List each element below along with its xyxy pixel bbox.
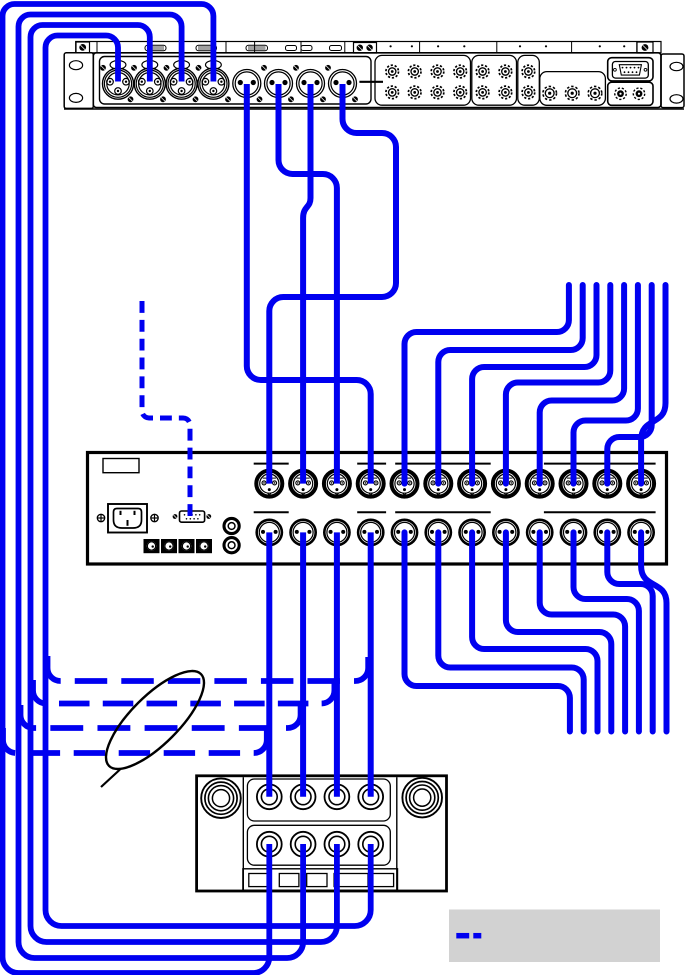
XLR female 10 (middle unit top row) xyxy=(561,471,587,497)
XLR female 11 (middle unit top row) xyxy=(594,471,620,497)
snake callout ellipse xyxy=(92,657,218,783)
DB9 connector box (top unit) xyxy=(608,58,653,81)
legend dashed sample xyxy=(456,933,481,939)
legend box xyxy=(449,910,660,963)
XLR male 11 (middle unit bottom row) xyxy=(595,520,620,545)
label plate xyxy=(103,459,139,473)
XLR female 7 (middle unit top row) xyxy=(459,471,485,497)
XLR male 12 (middle unit bottom row) xyxy=(629,520,654,545)
RCA jacks 2x2 group xyxy=(476,65,511,99)
XLR flange screws (male group) xyxy=(257,65,358,102)
wire ch 12 out to external 8 xyxy=(641,532,666,731)
wire M1: top unit XLR in 1 to middle unit ch 4 xyxy=(247,84,371,484)
callout leader line xyxy=(101,770,120,788)
XLR female 4 (middle unit top row) xyxy=(358,471,384,497)
XLR female 5 (middle unit top row) xyxy=(392,471,418,497)
wire ch 7 out to external 3 xyxy=(472,532,597,731)
IEC power inlet xyxy=(108,504,147,533)
XLR male 4 (middle unit bottom row) xyxy=(358,520,383,545)
DB9 serial port (middle unit) xyxy=(173,511,212,522)
dashed snake run 2 xyxy=(33,680,334,704)
RCA group rects (top unit) xyxy=(375,55,605,105)
input jack panel xyxy=(247,779,390,821)
XLR female 9 (middle unit top row) xyxy=(527,471,553,497)
XLR male IN2 (top unit) xyxy=(265,70,293,98)
wire source 2 to middle unit ch 6 xyxy=(438,285,582,484)
dashed snake run 4 xyxy=(3,728,267,753)
XLR female OUT4 (top unit) xyxy=(198,61,229,100)
wire ch 10 out to external 6 xyxy=(574,532,639,731)
middle rack unit chassis xyxy=(88,453,667,565)
device section dividers xyxy=(243,777,396,889)
wire ch 3 out to device input 3 xyxy=(334,532,340,796)
wire ch 8 out to external 4 xyxy=(506,532,611,731)
wire loop 3: XLR OUT3 to device output jack xyxy=(19,15,304,959)
BNC jacks x3 xyxy=(543,86,602,100)
wire loop 2: XLR OUT2 to device output jack xyxy=(31,25,337,942)
XLR male 1 (middle unit bottom row) xyxy=(257,520,282,545)
wire M4: top unit XLR in 4 to middle unit ch 1 xyxy=(269,84,396,484)
wire source 1 to middle unit ch 5 xyxy=(405,285,569,484)
right rack ear xyxy=(661,54,684,108)
RCA jacks 2x4 group xyxy=(386,65,467,99)
wire loop 4: XLR OUT4 to device output jack xyxy=(3,4,270,973)
panel separator line xyxy=(359,81,383,83)
XLR female OUT3 (top unit) xyxy=(166,61,197,100)
dashed serial cable to DB9 xyxy=(142,301,190,516)
RCA jacks 2x1 group xyxy=(522,65,535,99)
device input jacks x4 xyxy=(257,784,383,809)
top strip details (edge connectors, screws, dividers) xyxy=(76,42,653,53)
XLR female 2 (middle unit top row) xyxy=(290,471,316,497)
wire ch 5 out to external 1 xyxy=(405,532,570,731)
XLR female 6 (middle unit top row) xyxy=(425,471,451,497)
switch strip xyxy=(243,869,398,891)
wire ch 1 out to device input 1 xyxy=(266,532,272,796)
left reel/knob xyxy=(201,778,241,818)
phone jack box (top unit) xyxy=(608,82,653,105)
XLR male 5 (middle unit bottom row) xyxy=(392,520,417,545)
wire source 5 to middle unit ch 9 xyxy=(540,285,624,484)
device output jacks x4 xyxy=(257,832,383,857)
XLR male IN1 (top unit) xyxy=(233,70,261,98)
dashed snake run 1 xyxy=(48,656,369,681)
XLR female 1 (middle unit top row) xyxy=(256,471,282,497)
XLR female 3 (middle unit top row) xyxy=(324,471,350,497)
XLR male 10 (middle unit bottom row) xyxy=(561,520,586,545)
dashed snake run 3 xyxy=(21,704,301,728)
XLR male IN4 (top unit) xyxy=(329,70,357,98)
wire source 8 to middle unit ch 12 xyxy=(641,285,665,484)
top rack unit chassis xyxy=(64,42,684,110)
XLR male 7 (middle unit bottom row) xyxy=(460,520,485,545)
wire source 3 to middle unit ch 7 xyxy=(472,285,596,484)
XLR male 2 (middle unit bottom row) xyxy=(291,520,316,545)
wire source 7 to middle unit ch 11 xyxy=(607,285,651,484)
XLR female OUT2 (top unit) xyxy=(134,61,165,100)
bottom device chassis xyxy=(197,776,447,891)
XLR flange screws (female group) xyxy=(100,65,231,102)
XLR female 8 (middle unit top row) xyxy=(493,471,519,497)
wire ch 6 out to external 2 xyxy=(438,532,583,731)
wire source 6 to middle unit ch 10 xyxy=(574,285,638,484)
wire M3: top unit XLR in 3 to middle unit ch 2 xyxy=(303,84,310,484)
XLR male 8 (middle unit bottom row) xyxy=(493,520,518,545)
XLR female 12 (middle unit top row) xyxy=(628,471,654,497)
XLR female OUT1 (top unit) xyxy=(103,61,134,100)
XLR male 6 (middle unit bottom row) xyxy=(426,520,451,545)
wire source 4 to middle unit ch 8 xyxy=(506,285,610,484)
XLR male IN3 (top unit) xyxy=(297,70,325,98)
optical connectors x4 xyxy=(144,540,212,553)
wire ch 11 out to external 7 xyxy=(607,532,652,731)
power inlet screws xyxy=(97,514,158,521)
wire ch 4 out to device input 4 xyxy=(368,532,374,796)
group label lines above XLR rows xyxy=(254,464,656,513)
XLR male 3 (middle unit bottom row) xyxy=(324,520,349,545)
wire loop 1: XLR OUT1 to device output jack xyxy=(46,36,371,927)
output jack panel xyxy=(247,825,390,865)
wire ch 2 out to device input 2 xyxy=(300,532,306,796)
RCA pair (middle unit) xyxy=(224,518,239,552)
right reel/knob xyxy=(402,778,442,818)
XLR male 9 (middle unit bottom row) xyxy=(527,520,552,545)
left rack ear xyxy=(64,53,93,109)
wire ch 9 out to external 5 xyxy=(540,532,625,731)
wire M2: top unit XLR in 2 to middle unit ch 3 xyxy=(279,84,337,484)
